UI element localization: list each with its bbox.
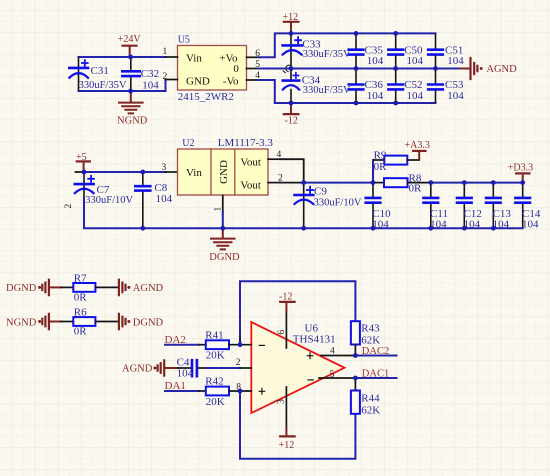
- svg-text:104: 104: [177, 367, 194, 379]
- svg-text:0R: 0R: [74, 326, 88, 338]
- svg-text:1: 1: [214, 207, 224, 212]
- pin 2: [166, 79, 178, 81]
- junction: [428, 226, 433, 231]
- capacitor C32: [122, 58, 159, 91]
- junction: [238, 342, 243, 347]
- svg-text:104: 104: [367, 55, 384, 67]
- svg-text:NGND: NGND: [6, 317, 37, 328]
- wire ground bottom rail: [84, 227, 523, 229]
- svg-text:NGND: NGND: [117, 115, 148, 126]
- capacitor C13: [486, 184, 511, 231]
- svg-text:-Vo: -Vo: [223, 75, 239, 87]
- capacitor C51: [428, 34, 464, 68]
- wire D3.3 rail: [431, 182, 523, 184]
- resistor R6: [61, 306, 117, 337]
- power -12: [284, 104, 299, 127]
- svg-text:3: 3: [276, 399, 286, 404]
- svg-text:Vin: Vin: [186, 167, 202, 179]
- power +12 bottom: [279, 428, 295, 451]
- svg-text:GND: GND: [186, 75, 210, 87]
- junction: [520, 180, 525, 185]
- svg-text:U5: U5: [178, 35, 190, 46]
- svg-text:0: 0: [233, 63, 239, 75]
- power +24V: [118, 34, 142, 56]
- junction: [289, 101, 294, 106]
- dc-dc converter U5: [178, 35, 247, 103]
- svg-text:104: 104: [407, 90, 424, 102]
- capacitor C52: [388, 70, 423, 103]
- junction: [220, 226, 225, 231]
- capacitor C7: [64, 173, 134, 227]
- capacitor C9: [295, 184, 362, 227]
- ground NGND left of R6: [6, 314, 61, 329]
- wire Vout4 elbow: [280, 159, 304, 182]
- svg-text:LM1117-3.3: LM1117-3.3: [218, 137, 274, 149]
- ground DGND right of R6: [119, 314, 164, 329]
- junction: [128, 55, 133, 60]
- capacitor C34: [283, 70, 351, 103]
- svg-text:20K: 20K: [206, 396, 225, 408]
- svg-text:AGND: AGND: [133, 283, 164, 294]
- junction: [462, 180, 467, 185]
- svg-text:2: 2: [163, 72, 168, 82]
- junction: [393, 101, 398, 106]
- svg-text:+24V: +24V: [118, 34, 142, 45]
- capacitor C31: [69, 58, 127, 91]
- junction: [128, 89, 133, 94]
- svg-text:62K: 62K: [361, 334, 380, 346]
- ground AGND at C4: [122, 360, 191, 375]
- svg-text:GND: GND: [218, 160, 230, 184]
- svg-text:C31: C31: [91, 65, 109, 77]
- svg-text:0R: 0R: [409, 183, 423, 195]
- wire input bottom rail: [79, 80, 166, 92]
- junction: [301, 226, 306, 231]
- svg-text:6: 6: [277, 330, 287, 335]
- wire -Vo to -12 bottom rail: [259, 80, 436, 103]
- junction: [462, 226, 467, 231]
- capacitor C35: [349, 34, 384, 68]
- svg-text:4: 4: [330, 346, 335, 356]
- pin 2: [268, 182, 280, 184]
- junction: [140, 226, 145, 231]
- svg-text:DAC2: DAC2: [362, 346, 389, 357]
- junction: [428, 180, 433, 185]
- svg-text:2: 2: [236, 358, 241, 368]
- wire DA1: [165, 390, 199, 392]
- svg-text:62K: 62K: [361, 404, 380, 416]
- svg-text:104: 104: [367, 90, 384, 102]
- svg-text:330uF/35V: 330uF/35V: [79, 80, 127, 91]
- junction: [393, 66, 398, 71]
- ground DGND: [209, 229, 240, 263]
- svg-text:104: 104: [522, 218, 539, 230]
- svg-text:C9: C9: [314, 185, 327, 197]
- power +D3.3: [508, 162, 533, 181]
- svg-text:DGND: DGND: [6, 283, 37, 294]
- junction: [371, 226, 376, 231]
- svg-text:Vout: Vout: [240, 180, 261, 192]
- pin 4 output: [321, 355, 355, 357]
- capacitor C8: [135, 173, 172, 227]
- svg-text:330uF/35V: 330uF/35V: [303, 85, 351, 96]
- svg-text:+12: +12: [279, 440, 295, 451]
- wire feedback bottom: [240, 391, 355, 459]
- ground AGND right: [460, 58, 517, 79]
- capacitor C10: [366, 184, 391, 231]
- svg-text:0R: 0R: [74, 292, 88, 304]
- wire +24V input top rail: [79, 56, 166, 58]
- junction: [393, 31, 398, 36]
- wire 3.3V rail: [280, 182, 302, 184]
- resistor R9: [373, 149, 419, 181]
- svg-text:2: 2: [64, 204, 74, 209]
- junction: [353, 353, 358, 358]
- svg-text:330uF/10V: 330uF/10V: [314, 197, 362, 208]
- power -12 top: [279, 292, 295, 312]
- svg-text:+D3.3: +D3.3: [508, 162, 533, 173]
- ground AGND right of R7: [119, 280, 164, 295]
- junction: [433, 66, 438, 71]
- svg-text:U2: U2: [182, 138, 194, 149]
- junction: [491, 226, 496, 231]
- power +A3.3: [405, 140, 430, 159]
- svg-text:AGND: AGND: [122, 364, 153, 375]
- no-ERC marker at 0-net junction: [283, 65, 290, 73]
- capacitor C50: [388, 34, 423, 68]
- capacitor C53: [428, 70, 464, 103]
- capacitor C4: [177, 357, 197, 380]
- capacitor C33: [283, 34, 351, 68]
- resistor R41: [199, 329, 251, 361]
- capacitor C36: [349, 70, 384, 103]
- pin 4: [268, 158, 280, 160]
- resistor R44: [351, 378, 380, 416]
- svg-text:-12: -12: [285, 116, 298, 127]
- svg-text:5: 5: [330, 370, 335, 380]
- resistor R7: [61, 272, 117, 303]
- svg-text:DAC1: DAC1: [362, 368, 389, 379]
- junction: [82, 170, 87, 175]
- svg-text:330uF/10V: 330uF/10V: [85, 195, 133, 206]
- regulator U2: [178, 137, 274, 195]
- junction: [238, 389, 243, 394]
- svg-text:R9: R9: [374, 149, 387, 161]
- pin 5 output: [319, 377, 355, 379]
- resistor R8: [374, 172, 431, 194]
- junction: [354, 101, 359, 106]
- svg-text:104: 104: [447, 90, 464, 102]
- svg-text:104: 104: [407, 55, 424, 67]
- pin 3: [166, 171, 178, 173]
- svg-text:104: 104: [156, 193, 173, 205]
- capacitor C11: [424, 184, 449, 231]
- junction: [354, 66, 359, 71]
- wire +5 input: [76, 171, 85, 173]
- pin 4: [247, 79, 259, 81]
- svg-text:R44: R44: [361, 392, 380, 404]
- wire DA2: [165, 344, 199, 346]
- svg-text:R41: R41: [205, 329, 223, 341]
- junction: [289, 31, 294, 36]
- svg-text:R6: R6: [74, 306, 87, 318]
- junction: [354, 31, 359, 36]
- svg-text:DGND: DGND: [209, 252, 240, 263]
- svg-text:1: 1: [163, 47, 168, 57]
- ground DGND left of R7: [6, 280, 61, 295]
- svg-text:104: 104: [447, 55, 464, 67]
- junction: [140, 170, 145, 175]
- svg-text:330uF/35V: 330uF/35V: [303, 49, 351, 60]
- junction: [289, 66, 294, 71]
- power +5: [76, 152, 90, 171]
- junction: [371, 180, 376, 185]
- svg-text:THS4131: THS4131: [293, 333, 336, 345]
- svg-text:20K: 20K: [206, 349, 225, 361]
- svg-text:Vin: Vin: [186, 53, 202, 65]
- resistor R43: [351, 321, 380, 355]
- pin 6: [247, 56, 259, 58]
- svg-text:104: 104: [142, 79, 159, 91]
- svg-text:+A3.3: +A3.3: [405, 140, 430, 151]
- capacitor C12: [457, 184, 482, 231]
- junction: [353, 376, 358, 381]
- svg-text:C32: C32: [141, 68, 159, 80]
- pin 2 Vocm: [198, 367, 206, 369]
- svg-text:3: 3: [162, 163, 167, 173]
- svg-text:R42: R42: [205, 376, 223, 388]
- svg-text:AGND: AGND: [486, 64, 517, 75]
- pin 1: [166, 56, 178, 58]
- svg-text:2415_2WR2: 2415_2WR2: [178, 91, 234, 103]
- op-amp U6 THS4131: [251, 322, 344, 413]
- wire feedback top: [240, 281, 355, 344]
- power +12: [283, 12, 299, 33]
- ground NGND: [117, 92, 148, 126]
- junction: [301, 180, 306, 185]
- resistor R42: [199, 376, 251, 408]
- SEC1: [82, 31, 525, 393]
- capacitor C14: [515, 184, 540, 231]
- pin 5: [247, 68, 259, 70]
- svg-text:Vout: Vout: [240, 156, 261, 168]
- pin 6 V- supply: [285, 312, 287, 348]
- pin 1 U2 gnd: [222, 196, 224, 213]
- svg-text:DGND: DGND: [133, 317, 164, 328]
- svg-text:R43: R43: [361, 322, 380, 334]
- pin 3 V+ supply: [285, 387, 287, 428]
- wire +Vo to +12 top rail: [259, 33, 436, 57]
- svg-text:R7: R7: [74, 272, 87, 284]
- wire DAC1: [355, 377, 396, 379]
- wire DAC2: [355, 355, 396, 357]
- wire 0 net to AGND: [259, 68, 461, 70]
- svg-text:0R: 0R: [374, 161, 388, 173]
- junction: [491, 180, 496, 185]
